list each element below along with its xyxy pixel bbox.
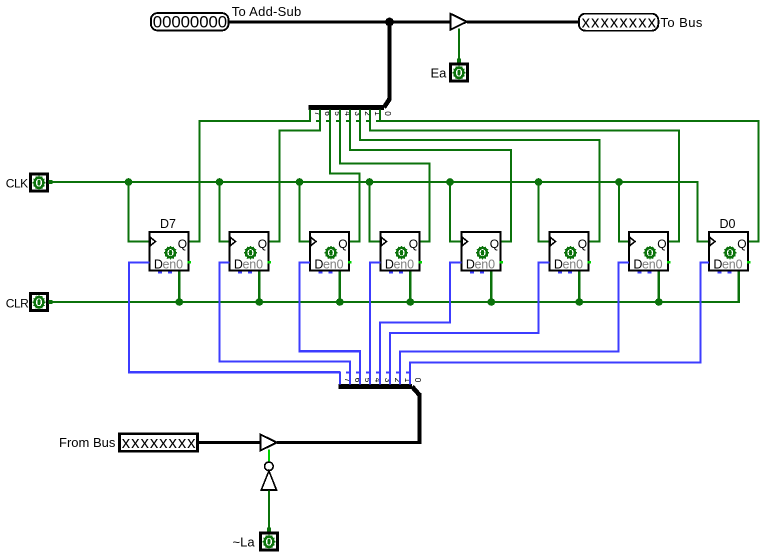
input pin "From Bus" 8-bit — [119, 433, 197, 452]
svg-text:Q: Q — [490, 237, 499, 251]
node: CLK junction at FF D5 — [296, 178, 304, 186]
wire: NOT gate output to buffer enable (logic 1) — [268, 450, 270, 463]
splitter SP1 pin 0 stub — [376, 110, 392, 123]
svg-text:en0: en0 — [243, 258, 264, 272]
svg-text:Q: Q — [338, 237, 347, 251]
D flip-flop D5 — [310, 232, 351, 274]
node: CLK junction at FF D3 — [446, 178, 454, 186]
svg-text:00000000: 00000000 — [153, 12, 227, 31]
bus wire: From Bus to buffer La input — [199, 441, 261, 444]
node: CLR junction at FF D7 — [176, 298, 184, 306]
svg-text:en0: en0 — [323, 258, 344, 272]
node: CLR junction at FF D3 — [488, 298, 496, 306]
splitter SP1 (1 to 8 fanout, top) — [309, 99, 390, 108]
wire: SP2 bit 5 to D input of FF D5 — [300, 263, 361, 373]
svg-text:xxxxxxxx: xxxxxxxx — [122, 433, 197, 452]
wire: FF D3 clear to CLR net — [490, 272, 492, 303]
node: CLK junction at FF D7 — [125, 178, 133, 186]
wire: SP2 bit 1 to D input of FF D1 — [400, 263, 629, 373]
svg-text:To Add-Sub: To Add-Sub — [232, 4, 302, 19]
wire: FF D2 clear to CLR net — [578, 272, 580, 303]
input pin CLR — [30, 293, 47, 310]
buffer U10 (loads register from bus) — [261, 435, 277, 451]
wire: FF D7 clear to CLR net — [178, 272, 180, 303]
svg-text:en0: en0 — [163, 258, 184, 272]
bus wire: junction down to splitter SP1 — [388, 22, 392, 100]
wire: SP2 bit 6 to D input of FF D6 — [220, 263, 351, 373]
wire: SP1 bit 6 to Q of FF D6 — [270, 121, 321, 242]
node: CLK junction at FF D1 — [615, 178, 623, 186]
input pin ~La — [260, 533, 277, 550]
wire: ~La pin to NOT gate input — [267, 491, 271, 533]
splitter SP1 pin 3 stub — [346, 110, 362, 123]
D flip-flop D6 — [230, 232, 271, 274]
wire: SP1 bit 1 to Q of FF D1 — [370, 121, 679, 242]
wire: CLK drop to FF D5 clock input — [300, 182, 311, 242]
wire: SP1 bit 5 to Q of FF D5 — [330, 121, 360, 242]
node: CLK junction at FF D2 — [535, 178, 543, 186]
input pin CLK — [30, 174, 47, 191]
wire: SP2 bit 4 to D input of FF D4 — [370, 263, 381, 373]
NOT gate U11 (inverter, facing up) — [261, 462, 276, 490]
wire: CLK drop to FF D3 clock input — [450, 182, 462, 242]
wire: SP2 bit 2 to D input of FF D2 — [390, 263, 550, 373]
D flip-flop D4 — [381, 232, 422, 274]
wire: SP2 bit 3 to D input of FF D3 — [380, 263, 462, 373]
splitter SP1 pin 1 stub — [366, 110, 382, 123]
D flip-flop D3 — [462, 232, 503, 274]
bus wire: junction to buffer Ea input — [390, 21, 451, 24]
svg-text:0: 0 — [413, 378, 422, 383]
svg-text:Q: Q — [737, 237, 746, 251]
D flip-flop D1 — [629, 232, 670, 274]
splitter SP1 pin 2 stub — [356, 110, 372, 123]
splitter SP1 pin 6 stub — [316, 110, 332, 123]
input pin Ea — [450, 64, 467, 81]
svg-text:D0: D0 — [720, 217, 736, 231]
wire: CLK drop to FF D7 clock input — [129, 182, 150, 242]
D flip-flop D2 — [550, 232, 591, 274]
node: CLR junction at FF D6 — [255, 298, 263, 306]
wire: FF D6 clear to CLR net — [258, 272, 260, 303]
wire: CLK drop to FF D6 clock input — [220, 182, 230, 242]
wire: CLR net (horizontal, ends at D0 clear) — [49, 272, 739, 304]
svg-text:en0: en0 — [563, 258, 584, 272]
splitter SP2 pin 5 stub — [356, 371, 372, 384]
wire: CLK drop to FF D2 clock input — [539, 182, 550, 242]
splitter SP1 pin 5 stub — [326, 110, 342, 123]
svg-text:Q: Q — [578, 237, 587, 251]
svg-text:xxxxxxxx: xxxxxxxx — [582, 12, 658, 31]
buffer U9 (tri-state to bus) — [451, 14, 467, 30]
splitter SP2 pin 2 stub — [386, 371, 402, 384]
wire: SP2 bit 0 to D input of FF D0 — [410, 263, 709, 373]
node: CLK junction at FF D4 — [366, 178, 374, 186]
splitter SP2 pin 4 stub — [366, 371, 382, 384]
bus wire: splitter SP2 trunk down to bus — [418, 393, 422, 441]
svg-text:CLR: CLR — [6, 296, 29, 310]
output pin "To Bus" 8-bit display — [579, 12, 659, 31]
svg-text:en0: en0 — [722, 258, 743, 272]
bus wire: buffer La output to splitter trunk — [277, 441, 421, 444]
svg-text:en0: en0 — [642, 258, 663, 272]
wire: SP2 bit 7 to D input of FF D7 — [129, 263, 340, 373]
wire: SP1 bit 3 to Q of FF D3 — [350, 121, 511, 242]
node: CLR junction at FF D1 — [655, 298, 663, 306]
svg-text:en0: en0 — [394, 258, 415, 272]
splitter SP1 pin 4 stub — [336, 110, 352, 123]
splitter SP2 pin 7 stub — [336, 371, 352, 384]
svg-text:To Bus: To Bus — [660, 15, 702, 30]
node: CLR junction at FF D2 — [576, 298, 584, 306]
wire: FF D4 clear to CLR net — [409, 272, 411, 303]
splitter SP2 pin 3 stub — [376, 371, 392, 384]
D flip-flop D0 — [709, 232, 750, 274]
wire: SP1 bit 2 to Q of FF D2 — [360, 121, 600, 242]
svg-text:CLK: CLK — [6, 176, 28, 190]
svg-text:0: 0 — [383, 111, 392, 116]
D flip-flop D7 — [150, 232, 191, 274]
wire: SP1 bit 4 to Q of FF D4 — [340, 121, 430, 242]
wire: FF D5 clear to CLR net — [339, 272, 341, 303]
svg-text:Q: Q — [258, 237, 267, 251]
svg-text:Ea: Ea — [431, 65, 448, 80]
wire: CLK net (horizontal, ends at D0 clock) — [49, 180, 709, 241]
wire: Ea pin to buffer enable — [457, 29, 461, 63]
svg-text:~La: ~La — [233, 535, 256, 550]
bus wire: buffer output to To Bus display — [467, 21, 578, 24]
splitter SP2 pin 0 stub — [406, 371, 422, 384]
svg-text:Q: Q — [409, 237, 418, 251]
bus wire: register output to junction — [230, 21, 390, 24]
splitter SP1 pin 7 stub — [306, 110, 322, 123]
node: CLR junction at FF D5 — [336, 298, 344, 306]
wire: CLK drop to FF D4 clock input — [370, 182, 381, 242]
node: CLR junction at FF D4 — [407, 298, 415, 306]
svg-text:D7: D7 — [160, 217, 176, 231]
splitter SP2 pin 6 stub — [346, 371, 362, 384]
node: top bus junction — [385, 18, 394, 27]
wire: SP1 bit 7 to Q of FF D7 — [190, 121, 311, 242]
svg-text:Q: Q — [657, 237, 666, 251]
wire: SP1 bit 0 to Q of FF D0 — [380, 121, 759, 242]
node: CLK junction at FF D6 — [216, 178, 224, 186]
svg-text:From Bus: From Bus — [59, 435, 116, 450]
splitter SP2 (8 to 1 merge, bottom) — [339, 387, 420, 396]
output pin "To Add-Sub" 8-bit display — [151, 12, 229, 31]
svg-text:Q: Q — [178, 237, 187, 251]
svg-text:en0: en0 — [475, 258, 496, 272]
wire: CLK drop to FF D1 clock input — [619, 182, 629, 242]
wire: FF D1 clear to CLR net — [658, 272, 660, 303]
splitter SP2 pin 1 stub — [396, 371, 412, 384]
